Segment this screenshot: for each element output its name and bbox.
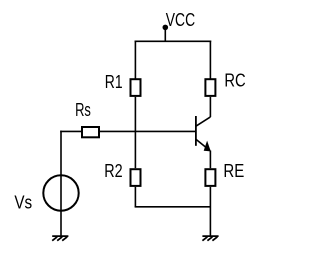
resistor RC [205, 79, 215, 96]
transistor Q1 base bar [195, 116, 197, 146]
wire base [100, 130, 196, 132]
resistor RE [205, 169, 215, 186]
wire R1 bottom to R2 top [134, 97, 136, 168]
wire emitter to RE [209, 151, 211, 169]
transistor Q1 emitter arrowhead [204, 141, 211, 152]
wire Vs to Rs [60, 130, 82, 132]
wire bottom rail [135, 206, 211, 208]
resistor R2 [131, 169, 141, 186]
wire top rail [135, 40, 212, 42]
svg-text:RE: RE [223, 161, 244, 181]
svg-text:Rs: Rs [75, 100, 91, 120]
ground left [52, 236, 68, 241]
resistor R1 [131, 79, 141, 96]
source Vs circle [43, 175, 78, 210]
wire RC bottom to collector [209, 97, 211, 117]
resistor Rs [82, 127, 99, 137]
svg-text:RC: RC [224, 70, 245, 90]
wire RC top [209, 41, 211, 79]
wire RE bottom to ground [209, 187, 211, 236]
svg-text:Vs: Vs [14, 192, 32, 212]
svg-text:VCC: VCC [166, 10, 195, 30]
transistor Q1 emitter diagonal [196, 139, 210, 150]
wire R1 top [134, 41, 136, 79]
node VCC dot [163, 25, 169, 31]
wire Vs column [60, 131, 62, 237]
wire R2 bottom [134, 187, 136, 207]
svg-text:R1: R1 [105, 72, 123, 92]
transistor Q1 collector diagonal [196, 117, 211, 126]
wire VCC stub [164, 27, 166, 41]
svg-text:R2: R2 [104, 161, 122, 181]
ground right [202, 236, 218, 241]
